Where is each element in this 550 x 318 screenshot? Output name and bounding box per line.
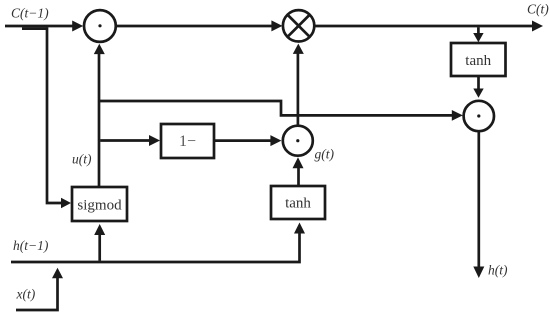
svg-text:tanh: tanh	[465, 53, 491, 69]
svg-text:x(t): x(t)	[16, 287, 36, 302]
svg-text:g(t): g(t)	[315, 147, 335, 162]
svg-text:tanh: tanh	[285, 196, 311, 212]
svg-text:h(t): h(t)	[488, 263, 508, 278]
svg-text:C(t): C(t)	[527, 2, 549, 17]
svg-text:h(t−1): h(t−1)	[13, 238, 49, 253]
svg-text:C(t−1): C(t−1)	[11, 6, 49, 21]
svg-text:1−: 1−	[179, 133, 196, 150]
svg-text:u(t): u(t)	[72, 152, 92, 167]
svg-text:sigmod: sigmod	[77, 198, 122, 214]
